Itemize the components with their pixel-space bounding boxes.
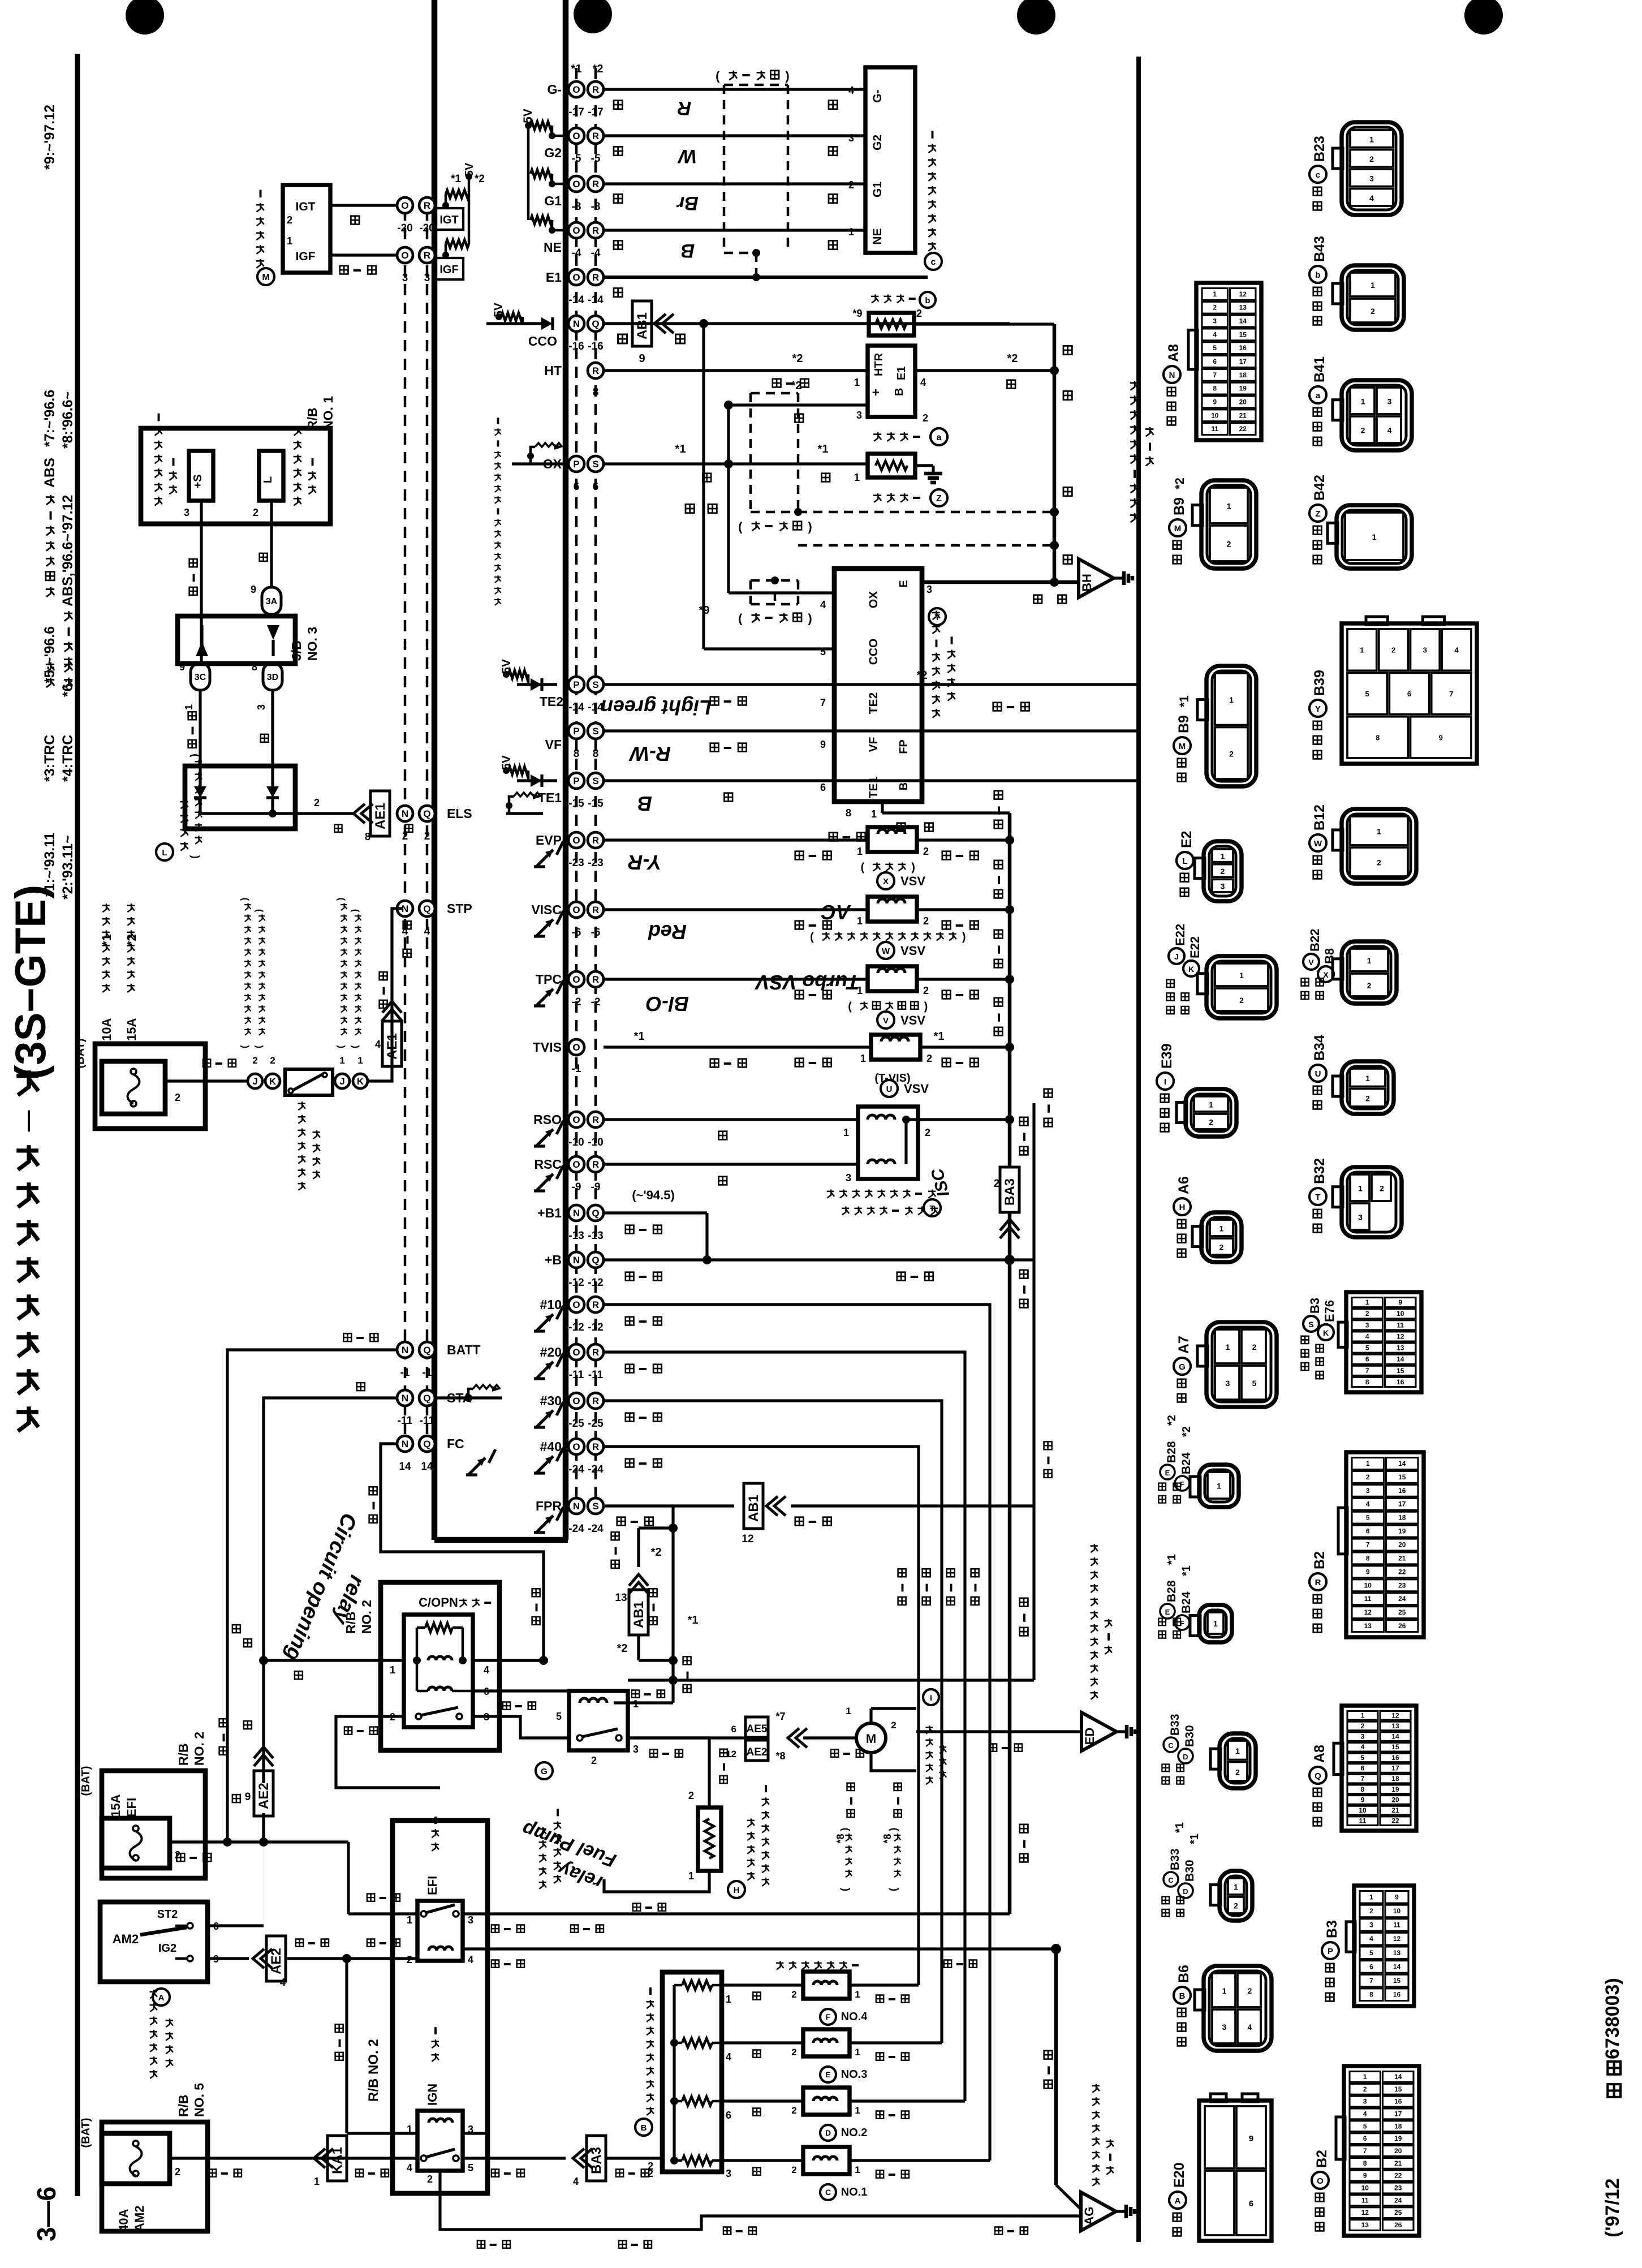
- svg-text:Q: Q: [592, 1255, 599, 1266]
- connector E39: [1186, 1089, 1236, 1137]
- svg-text:*3:TRC: *3:TRC: [42, 735, 58, 782]
- svg-text:B34: B34: [1312, 1035, 1328, 1061]
- svg-text:R: R: [592, 365, 599, 376]
- wire ECU to VSV V: [604, 978, 868, 980]
- svg-text:9: 9: [820, 739, 826, 750]
- injector NO.2: [803, 2088, 850, 2115]
- svg-text:TVIS: TVIS: [533, 1040, 562, 1055]
- svg-text:W: W: [882, 946, 890, 956]
- AB1 arrow on FPR branch: [673, 1504, 734, 1507]
- svg-text:C/OPN: C/OPN: [419, 1595, 458, 1609]
- svg-text:15: 15: [1239, 330, 1247, 338]
- svg-text:1: 1: [357, 1055, 363, 1066]
- ECU connector dashed bus left pair: [404, 209, 407, 1446]
- svg-text:9: 9: [245, 1791, 251, 1803]
- svg-text:22: 22: [1394, 2172, 1402, 2180]
- svg-text:17: 17: [1391, 1765, 1399, 1772]
- svg-text:-11: -11: [588, 1369, 604, 1381]
- OX riser to diagnosis connector: [727, 405, 730, 464]
- wire resistor to pump: [708, 1738, 710, 1807]
- svg-text:3C: 3C: [195, 673, 206, 682]
- svg-text:HTR: HTR: [873, 352, 885, 376]
- svg-text:c: c: [931, 257, 936, 267]
- wire ignitor IGT to ECU: [330, 204, 397, 206]
- svg-text:L: L: [1182, 857, 1187, 866]
- ignition switch label: [153, 1989, 170, 2006]
- svg-text:(~'94.5): (~'94.5): [632, 1188, 675, 1202]
- svg-text:(BAT): (BAT): [80, 2118, 92, 2148]
- svg-text:7: 7: [1361, 1775, 1365, 1783]
- svg-text:5: 5: [1213, 344, 1217, 352]
- svg-text:15: 15: [1397, 1367, 1404, 1375]
- svg-text:1: 1: [1365, 1074, 1370, 1083]
- connector A8 (Q): [1342, 1706, 1416, 1831]
- svg-text:N: N: [402, 808, 408, 819]
- connector B42 label: [1313, 556, 1322, 564]
- svg-text:14: 14: [421, 1461, 433, 1473]
- svg-text:15: 15: [1391, 1743, 1399, 1751]
- connector E20 label: [1173, 2228, 1182, 2236]
- svg-text:): ): [911, 862, 915, 874]
- column separator rule: [1136, 57, 1141, 2242]
- svg-text:10: 10: [1211, 411, 1219, 419]
- svg-text:40A: 40A: [117, 2209, 131, 2232]
- VSV W box: [868, 897, 917, 922]
- connector B34 label: [1313, 1101, 1322, 1109]
- svg-text:7: 7: [1366, 1541, 1370, 1549]
- svg-text:BATT: BATT: [447, 1342, 481, 1357]
- svg-text:R: R: [592, 1299, 599, 1310]
- stop lamp switch connector J/K left: [248, 1074, 262, 1088]
- svg-text:3: 3: [1423, 646, 1427, 655]
- svg-text:17: 17: [1398, 1500, 1406, 1508]
- tail lamp relay label: [294, 497, 301, 506]
- svg-text:2: 2: [1380, 1184, 1384, 1193]
- svg-text:BA3: BA3: [1002, 1178, 1018, 1206]
- svg-text:+: +: [869, 389, 883, 396]
- svg-text:25: 25: [1398, 1608, 1406, 1616]
- svg-text:VF: VF: [867, 737, 880, 752]
- svg-text:G-: G-: [871, 89, 884, 102]
- svg-text:E: E: [1165, 1608, 1170, 1616]
- svg-text:2: 2: [1377, 858, 1381, 867]
- svg-text:6: 6: [593, 481, 599, 493]
- svg-text:3: 3: [256, 704, 267, 710]
- svg-text:1: 1: [860, 1053, 866, 1064]
- O2 sensor heater box HTR: [868, 346, 915, 417]
- svg-text:17: 17: [1394, 2110, 1402, 2118]
- svg-text:2: 2: [407, 1954, 412, 1965]
- svg-text:2: 2: [923, 985, 929, 996]
- svg-text:15: 15: [1398, 1473, 1406, 1481]
- VSV U wire color labels: [795, 1058, 804, 1067]
- svg-text:2: 2: [287, 214, 292, 226]
- svg-text:2: 2: [1252, 1342, 1257, 1352]
- connector B32: [1342, 1167, 1402, 1237]
- svg-text:5: 5: [1363, 2122, 1367, 2130]
- wire G2 to distributor: [604, 134, 865, 137]
- connector B2 (O): [1344, 2066, 1419, 2236]
- svg-text:-24: -24: [568, 1464, 584, 1475]
- wire BATT to EFI fuse: [227, 1350, 397, 1842]
- svg-text:-25: -25: [568, 1418, 584, 1430]
- svg-text:6: 6: [1361, 1765, 1365, 1772]
- AE2 arrow 9: [254, 1747, 273, 1766]
- connector B39: [1342, 623, 1477, 764]
- injector label: [776, 1961, 783, 1969]
- svg-text:O: O: [572, 84, 580, 95]
- svg-text:F: F: [1180, 1619, 1184, 1628]
- svg-text:ST2: ST2: [157, 1908, 178, 1921]
- svg-text:3: 3: [1363, 2098, 1367, 2106]
- svg-text:17: 17: [1239, 358, 1247, 365]
- EFI relay inner box: [417, 1901, 463, 1961]
- svg-text:1: 1: [1366, 1460, 1370, 1467]
- svg-text:B: B: [681, 240, 695, 261]
- svg-text:AE2: AE2: [747, 1746, 768, 1758]
- svg-text:C: C: [1168, 1741, 1174, 1750]
- svg-text:1: 1: [1239, 971, 1244, 980]
- svg-text:N: N: [573, 1208, 580, 1219]
- svg-text:K: K: [1323, 1328, 1329, 1337]
- svg-text:2: 2: [1221, 867, 1225, 876]
- svg-text:('97/12: ('97/12: [1602, 2179, 1623, 2238]
- svg-text:4: 4: [726, 2051, 731, 2063]
- connector B12 label: [1313, 871, 1322, 879]
- ECU right boundary line: [563, 0, 568, 1540]
- svg-text:4: 4: [1455, 646, 1459, 655]
- svg-text:3—6: 3—6: [32, 2187, 61, 2241]
- svg-text:7: 7: [1363, 2147, 1367, 2155]
- tail lamp relay terminal L: [259, 451, 283, 501]
- svg-text:STP: STP: [447, 901, 472, 916]
- svg-text:-2: -2: [591, 996, 601, 1008]
- svg-text:L: L: [262, 476, 274, 483]
- svg-text:*9:~'97.12: *9:~'97.12: [42, 105, 58, 170]
- svg-text:2: 2: [1369, 154, 1374, 163]
- wire color labels for distributor wires: [614, 100, 622, 109]
- svg-text:R: R: [592, 1114, 599, 1125]
- stop lamp switch connector J/K right: [335, 1074, 350, 1088]
- svg-text:-20: -20: [397, 222, 412, 234]
- svg-text:-24: -24: [588, 1523, 604, 1535]
- ECU pin BATT: [397, 1342, 413, 1358]
- svg-text:*2: *2: [1173, 477, 1187, 489]
- svg-text:(: (: [716, 68, 720, 83]
- svg-text:2: 2: [175, 1849, 180, 1861]
- svg-text:8: 8: [846, 807, 851, 819]
- svg-text:3: 3: [402, 272, 408, 284]
- svg-text:N: N: [1169, 371, 1175, 380]
- svg-text:RSC: RSC: [534, 1157, 562, 1172]
- svg-text:4: 4: [484, 1664, 489, 1676]
- svg-text:1: 1: [1217, 1482, 1221, 1491]
- ELS pulse arrow: [506, 802, 512, 809]
- svg-text:4: 4: [1365, 1332, 1369, 1340]
- svg-text:-5: -5: [572, 153, 581, 165]
- IGN relay coil: [429, 2119, 452, 2123]
- R/B No.2 fuse box outer: [102, 1771, 205, 1878]
- connector B3 (P) label: [1326, 1993, 1334, 2002]
- +B1 wire: [604, 1211, 707, 1214]
- wire ST2 to STA riser: [208, 1924, 264, 1927]
- CCO wire kanji labels: [618, 334, 627, 343]
- svg-text:-12: -12: [588, 1277, 603, 1289]
- connector E22 labels: [1166, 1006, 1174, 1014]
- svg-text:T: T: [1315, 1193, 1320, 1202]
- IGN relay inner box: [417, 2111, 463, 2171]
- wire relay switch to fuel pump resistor top: [628, 1736, 709, 1739]
- wire G- to distributor: [604, 88, 865, 91]
- svg-text:1: 1: [855, 2164, 860, 2175]
- svg-text:23: 23: [1398, 1581, 1406, 1589]
- wire VF: [604, 729, 1139, 732]
- R/B No.2 relay box outer: [393, 1821, 488, 2193]
- svg-text:D: D: [1183, 1753, 1188, 1761]
- stop lamp fuse R/B box: [95, 1044, 205, 1129]
- BA3 arrow box on rail: [1000, 1167, 1019, 1212]
- svg-text:*9: *9: [699, 604, 710, 617]
- wire RSC to ISC: [604, 1163, 858, 1165]
- svg-text:*8: *8: [882, 1834, 893, 1843]
- svg-text:-8: -8: [572, 201, 581, 213]
- svg-text:S: S: [592, 679, 598, 690]
- solenoid resistor box: [662, 1972, 722, 2172]
- svg-text:B2: B2: [1314, 2150, 1330, 2168]
- svg-text:+S: +S: [192, 474, 204, 488]
- svg-text:Q: Q: [592, 1208, 599, 1219]
- O2 sensor (b) resistor on CCO line: [869, 313, 914, 335]
- svg-text:-23: -23: [588, 857, 603, 869]
- defogger relay label: [154, 497, 162, 506]
- svg-text:G: G: [541, 1767, 548, 1776]
- wire black to HTR plus: [729, 403, 868, 406]
- svg-text:R: R: [424, 200, 430, 211]
- svg-text:2: 2: [1213, 304, 1217, 312]
- svg-text:O: O: [572, 905, 580, 915]
- svg-text:J: J: [339, 1076, 344, 1087]
- svg-text:5: 5: [1366, 1514, 1370, 1522]
- svg-text:P: P: [573, 459, 579, 470]
- svg-text:S: S: [592, 726, 598, 737]
- svg-text:19: 19: [1239, 385, 1247, 393]
- wire C/OPN pin4 to FC riser: [473, 1659, 544, 1662]
- svg-text:B22: B22: [1308, 929, 1322, 952]
- connector E2: [1204, 841, 1242, 901]
- connector B9 *1 label: [1178, 773, 1186, 782]
- connector B33/B30: [1219, 1733, 1256, 1788]
- svg-text:M: M: [1179, 742, 1186, 751]
- svg-text:7: 7: [1369, 1977, 1373, 1985]
- svg-text:2: 2: [1248, 1986, 1252, 1995]
- svg-text:-12: -12: [568, 1277, 584, 1289]
- svg-text:a: a: [937, 433, 942, 442]
- svg-text:1: 1: [390, 1664, 395, 1676]
- svg-text:7: 7: [1365, 1367, 1369, 1375]
- title katakana engine control: [16, 1406, 38, 1431]
- BA3 arrow: [573, 2149, 592, 2168]
- svg-text:S: S: [592, 1501, 598, 1512]
- wire TE2: [604, 683, 1139, 686]
- svg-text:22: 22: [1398, 1568, 1406, 1576]
- svg-text:TE2: TE2: [540, 694, 563, 709]
- wire #40 to injector NO.4: [604, 1447, 919, 1985]
- svg-text:G2: G2: [544, 145, 562, 160]
- svg-text:Y: Y: [1315, 704, 1321, 714]
- svg-text:1: 1: [1221, 851, 1225, 860]
- ISC valve box: [858, 1107, 918, 1179]
- svg-text:21: 21: [1398, 1554, 1406, 1562]
- svg-text:3: 3: [1365, 1321, 1369, 1329]
- svg-text:12: 12: [1364, 1608, 1372, 1616]
- svg-text:VF: VF: [545, 737, 562, 752]
- svg-text:R: R: [1315, 1578, 1321, 1587]
- svg-text:3: 3: [1222, 2022, 1227, 2032]
- stop lamp switch label: [298, 1182, 305, 1190]
- svg-text:1: 1: [1372, 532, 1377, 541]
- svg-text:K: K: [269, 1076, 277, 1087]
- svg-text:16: 16: [1239, 344, 1247, 352]
- KA1 arrow: [314, 2149, 333, 2168]
- svg-text:8: 8: [1376, 733, 1380, 742]
- wire G1 to distributor: [604, 182, 865, 185]
- blue-black wire vertical: [1032, 1103, 1035, 1680]
- svg-text:E: E: [1165, 1469, 1170, 1477]
- svg-text:(BAT): (BAT): [80, 1766, 92, 1796]
- wire color label white (IGT): [351, 216, 359, 225]
- svg-text:11: 11: [1359, 1817, 1367, 1825]
- svg-text:*2: *2: [593, 63, 604, 75]
- svg-text:2: 2: [1366, 1473, 1370, 1481]
- svg-text:O: O: [572, 225, 580, 236]
- svg-text:*1: *1: [818, 443, 829, 455]
- svg-text:3: 3: [1369, 174, 1374, 183]
- svg-text:(: (: [810, 931, 814, 944]
- connector A7 label: [1178, 1394, 1186, 1402]
- wire HT to O2 heater: [604, 369, 868, 372]
- fuel pump resistor label: [728, 1881, 745, 1898]
- svg-text:2: 2: [1369, 1907, 1373, 1915]
- svg-text:2: 2: [591, 1755, 597, 1766]
- svg-text:22: 22: [1391, 1817, 1399, 1825]
- svg-text:11: 11: [1364, 1595, 1372, 1603]
- connector B42: [1337, 505, 1412, 569]
- svg-text:F: F: [826, 2012, 831, 2021]
- EFI relay coil: [429, 1947, 452, 1951]
- svg-text:H: H: [1179, 1203, 1186, 1212]
- svg-text:IGT: IGT: [439, 214, 458, 226]
- blue-black label: [683, 1685, 691, 1693]
- svg-text:NO. 3: NO. 3: [305, 627, 320, 661]
- B+ black-yellow rail: [1008, 813, 1012, 1166]
- svg-text:14: 14: [1391, 1733, 1399, 1741]
- connector B28/B24 *1: [1199, 1605, 1232, 1642]
- svg-text:O: O: [572, 1347, 580, 1358]
- svg-text:1: 1: [857, 846, 863, 857]
- svg-text:9: 9: [251, 584, 256, 595]
- diode (idle-up) box: [185, 766, 295, 829]
- svg-text:8: 8: [593, 386, 599, 398]
- svg-text:): ): [962, 931, 966, 944]
- svg-text:4: 4: [424, 926, 430, 937]
- red label: [244, 1639, 252, 1647]
- wire EFI relay pin3 to B+ rail: [463, 1912, 1010, 1915]
- svg-text:*4:TRC: *4:TRC: [60, 735, 76, 782]
- svg-text:FP: FP: [898, 739, 910, 754]
- svg-text:*2: *2: [792, 352, 803, 365]
- connector B23 label: [1313, 202, 1322, 210]
- svg-text:ABS: ABS: [42, 458, 58, 488]
- svg-text:1: 1: [1361, 1711, 1365, 1719]
- svg-text:NO.1: NO.1: [841, 2186, 868, 2198]
- svg-text:*2: *2: [1180, 1426, 1193, 1437]
- svg-text:4: 4: [468, 1954, 473, 1965]
- svg-text:R: R: [592, 131, 599, 141]
- svg-text:1: 1: [1235, 1746, 1240, 1755]
- svg-text:26: 26: [1394, 2221, 1402, 2229]
- svg-text:12: 12: [1239, 290, 1247, 298]
- svg-text:13: 13: [1393, 1949, 1401, 1957]
- svg-text:(: (: [839, 1888, 850, 1891]
- ECU pin IGT: [397, 197, 413, 213]
- svg-text:3: 3: [1369, 1921, 1373, 1929]
- svg-text:-9: -9: [591, 1181, 601, 1193]
- svg-text:2: 2: [791, 1989, 796, 2000]
- svg-text:A: A: [158, 1993, 165, 2003]
- svg-text:25: 25: [1394, 2209, 1402, 2217]
- svg-text:2: 2: [1227, 540, 1231, 549]
- svg-text:16: 16: [1398, 1487, 1406, 1495]
- svg-text:2: 2: [926, 1053, 932, 1064]
- svg-text:24: 24: [1394, 2196, 1402, 2204]
- svg-text:12: 12: [1393, 1935, 1401, 1943]
- svg-text:Red: Red: [648, 920, 687, 944]
- second shield dashed box: [751, 579, 798, 582]
- svg-text:O: O: [572, 1441, 580, 1452]
- svg-text:N: N: [402, 1439, 408, 1449]
- svg-text:2: 2: [1361, 426, 1365, 435]
- R/B No.1 box: [141, 428, 330, 524]
- svg-text:H: H: [734, 1886, 740, 1895]
- svg-text:NE: NE: [871, 228, 884, 244]
- stop lamp fuse: [102, 1061, 165, 1114]
- svg-text:B32: B32: [1312, 1158, 1328, 1184]
- fuel pump motor: [856, 1723, 886, 1753]
- svg-text:(: (: [349, 1045, 360, 1048]
- svg-text:8: 8: [1369, 1991, 1373, 1999]
- svg-text:B6: B6: [1176, 1965, 1192, 1983]
- VSV V box: [868, 966, 917, 991]
- svg-text:2: 2: [1235, 1767, 1240, 1776]
- svg-text:1: 1: [688, 1870, 694, 1882]
- svg-text:ED: ED: [1083, 1728, 1097, 1745]
- svg-text:U: U: [1315, 1069, 1321, 1079]
- svg-text:N: N: [573, 1255, 580, 1266]
- svg-text:Br: Br: [676, 192, 699, 214]
- C/OPN resistor: [416, 1628, 419, 1660]
- svg-text:B30: B30: [1183, 1725, 1196, 1747]
- svg-text:#30: #30: [540, 1393, 562, 1408]
- distributor box: [865, 67, 915, 253]
- svg-text:R: R: [592, 1347, 599, 1358]
- svg-text:18: 18: [1239, 371, 1247, 379]
- wire #10 to injector NO.1: [604, 1305, 990, 2161]
- svg-text:1: 1: [843, 1127, 849, 1138]
- injector NO.1 designator: [820, 2184, 836, 2200]
- svg-text:-17: -17: [568, 106, 584, 118]
- AG ground (back panel): [1056, 2214, 1081, 2217]
- svg-text:7: 7: [1213, 371, 1217, 379]
